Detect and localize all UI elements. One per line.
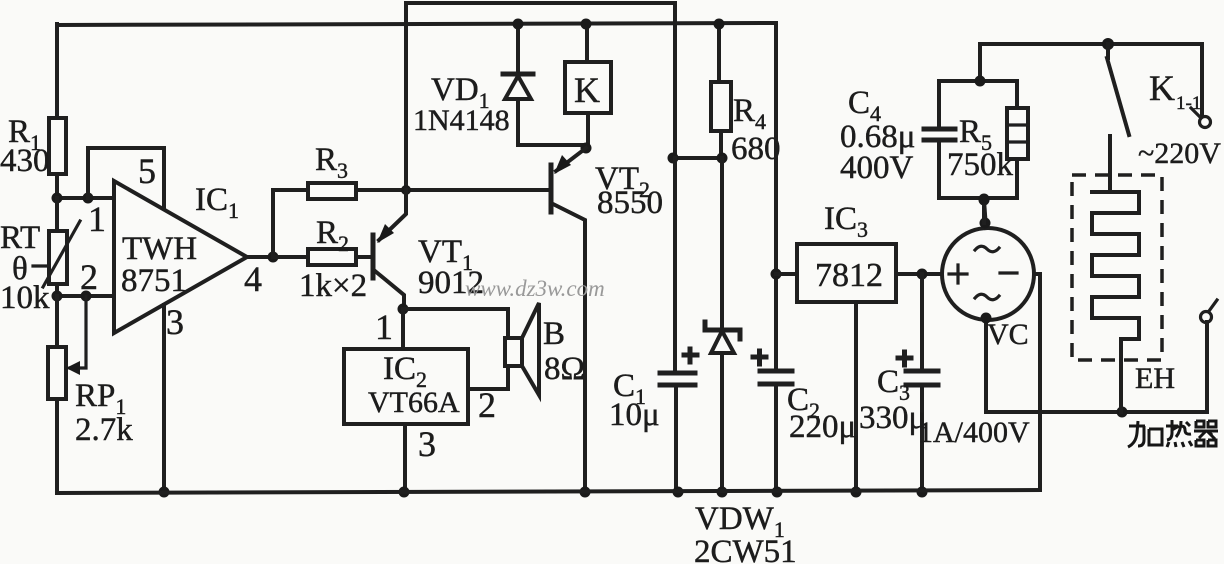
relay K <box>565 19 611 154</box>
svg-text:750k: 750k <box>947 147 1014 183</box>
capacitor C4 <box>924 81 955 198</box>
potentiometer RP1 <box>48 296 86 492</box>
node pin2 wire <box>52 291 115 302</box>
svg-text:B: B <box>543 316 565 352</box>
watermark <box>465 276 605 301</box>
heater EH dashed enclosure <box>1072 175 1162 360</box>
zener VDW1 <box>705 158 740 498</box>
svg-text:1-1: 1-1 <box>1176 93 1201 114</box>
IC2 pin3 wire <box>399 424 437 498</box>
svg-text:8751: 8751 <box>121 263 187 299</box>
label K1-1 <box>1149 68 1201 114</box>
label C1 10u <box>609 368 660 433</box>
svg-text:TWH: TWH <box>122 231 197 267</box>
svg-text:R4: R4 <box>733 93 766 134</box>
svg-text:IC3: IC3 <box>824 201 868 242</box>
svg-text:400V: 400V <box>840 150 914 186</box>
loop-back wire above rail <box>406 3 675 189</box>
speaker B <box>403 303 539 395</box>
label 1A/400V <box>918 416 1030 449</box>
label C4 0.68u 400V <box>840 85 915 186</box>
svg-text:K: K <box>574 70 600 110</box>
svg-text:330μ: 330μ <box>859 400 926 436</box>
label ~220V <box>1138 137 1221 170</box>
capacitor C1 <box>660 158 697 498</box>
mains terminal upper <box>1191 108 1211 128</box>
label C2 220u <box>787 382 856 445</box>
label VD1 1N4148 <box>413 72 510 137</box>
op-amp IC1 TWH8751 <box>114 181 247 333</box>
top supply rail <box>57 23 776 25</box>
svg-text:2: 2 <box>80 257 98 297</box>
label R3 <box>315 142 348 183</box>
bottom ground rail <box>57 490 1040 493</box>
node pin1 wire <box>52 193 115 204</box>
label RP1 2.7k <box>75 378 133 448</box>
resistor R4 <box>668 19 732 164</box>
svg-text:2.7k: 2.7k <box>75 412 133 448</box>
svg-text:10μ: 10μ <box>609 397 660 433</box>
svg-text:1: 1 <box>375 307 393 347</box>
svg-text:VT66A: VT66A <box>368 386 460 419</box>
svg-text:4: 4 <box>244 259 262 299</box>
diode VD1 1N4148 <box>503 19 586 146</box>
label R2 1k x2 <box>299 215 367 304</box>
label R1 430 <box>0 114 50 179</box>
label VDW1 2CW51 <box>694 501 797 564</box>
svg-text:2: 2 <box>478 385 496 425</box>
label C3 330u <box>859 364 926 436</box>
IC2 pin1 wire <box>375 307 403 349</box>
svg-text:680: 680 <box>731 131 781 167</box>
VC right wire to ground rail <box>1034 274 1040 490</box>
label VT1 9012 <box>418 234 484 301</box>
node C4R5 bottom <box>979 194 990 224</box>
label RT theta 10k <box>0 220 50 316</box>
label IC3 <box>824 201 868 242</box>
resistor R3 <box>273 183 551 257</box>
pin 5 loop <box>88 148 164 208</box>
resistor R2 <box>273 249 371 265</box>
svg-text:R2: R2 <box>316 215 349 256</box>
capacitor C2 feed wire <box>753 24 792 498</box>
jia <box>1128 421 1145 447</box>
svg-text:VC: VC <box>987 318 1029 351</box>
transistor VT1 9012 <box>373 190 409 315</box>
bridge rectifier VC <box>942 228 1034 320</box>
svg-text:IC1: IC1 <box>195 182 239 223</box>
svg-text:8550: 8550 <box>597 185 663 221</box>
svg-text:www.dz3w.com: www.dz3w.com <box>465 276 605 301</box>
svg-text:3: 3 <box>418 424 436 464</box>
resistor R1 <box>49 24 66 198</box>
capacitor C4 / resistor R5 parallel loop <box>939 81 1017 198</box>
svg-text:K: K <box>1149 68 1175 108</box>
label EH <box>1135 362 1175 395</box>
pin 3 wire <box>159 305 170 498</box>
svg-text:5: 5 <box>138 151 156 191</box>
svg-text:3: 3 <box>166 302 184 342</box>
label B 8ohm <box>543 316 585 387</box>
svg-text:2CW51: 2CW51 <box>694 534 797 564</box>
switch K1-1 <box>1107 44 1129 175</box>
svg-text:~220V: ~220V <box>1138 137 1221 170</box>
svg-text:EH: EH <box>1135 362 1175 395</box>
svg-text:8Ω: 8Ω <box>544 351 585 387</box>
svg-text:220μ: 220μ <box>789 409 856 445</box>
label VC <box>987 318 1029 351</box>
re <box>1166 420 1191 440</box>
transistor VT2 8550 <box>551 148 591 498</box>
label R5 750k <box>947 114 1014 183</box>
heater element coil <box>1092 136 1139 412</box>
VC bottom wire to heater <box>981 313 1208 418</box>
top right wire to mains <box>980 38 1202 116</box>
qi <box>1194 421 1218 446</box>
VC top wire <box>979 195 991 229</box>
thermistor RT <box>43 198 80 296</box>
svg-text:R3: R3 <box>315 142 348 183</box>
resistor R5 <box>1007 81 1028 198</box>
capacitor C3 <box>898 274 938 498</box>
svg-text:1k×2: 1k×2 <box>299 268 367 304</box>
label R4 680 <box>731 93 781 167</box>
node C4R5 top <box>975 44 986 87</box>
IC2 pin2 wire <box>468 366 508 425</box>
label VT2 8550 <box>595 161 663 221</box>
svg-text:7812: 7812 <box>815 257 883 294</box>
IC2 VT66A <box>344 349 468 424</box>
svg-text:1: 1 <box>88 199 106 239</box>
regulator IC3 7812 <box>776 244 941 498</box>
svg-text:10k: 10k <box>0 280 50 316</box>
label heater (Chinese) <box>1128 420 1218 447</box>
svg-text:1A/400V: 1A/400V <box>918 416 1030 449</box>
svg-text:1N4148: 1N4148 <box>413 104 510 137</box>
pin number labels IC1 <box>80 199 262 342</box>
label IC1 <box>195 182 239 223</box>
pin 4 wire <box>247 252 279 263</box>
mains terminal lower <box>1201 300 1218 323</box>
svg-text:430: 430 <box>0 143 50 179</box>
